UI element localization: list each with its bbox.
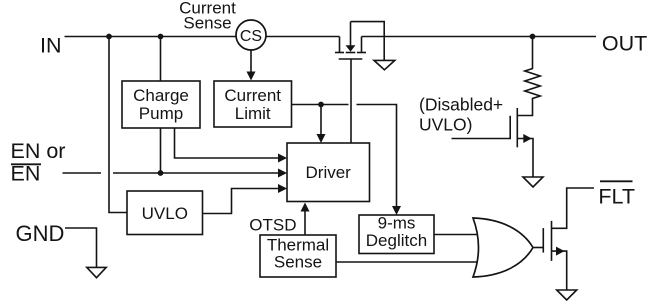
svg-text:(Disabled+: (Disabled+ [419, 94, 503, 114]
svg-text:Sense: Sense [183, 14, 231, 33]
block Charge Pump [122, 81, 200, 128]
wire Thermal Sense to Driver [304, 211, 306, 235]
wire IN rail [65, 36, 340, 38]
wire CS to Current Limit arrow [250, 50, 252, 72]
svg-text:UVLO): UVLO) [419, 115, 472, 135]
block 9-ms Deglitch [359, 215, 434, 254]
block UVLO [127, 191, 203, 235]
node OUT-resistor branch [530, 34, 536, 40]
svg-text:Current: Current [224, 86, 281, 105]
ground at GND pin [87, 267, 106, 277]
ground at discharge FET [523, 177, 543, 187]
node EN-ChargePump [158, 170, 164, 176]
svg-text:OUT: OUT [602, 32, 647, 56]
ground at FLT FET [557, 290, 577, 300]
wire OUT rail [362, 36, 597, 38]
transistor Q2 discharge FET [452, 108, 534, 177]
svg-text:9-ms: 9-ms [378, 214, 416, 233]
gate OR [473, 218, 533, 277]
svg-text:Sense: Sense [274, 253, 322, 272]
wire gate of Q1 to Driver [350, 59, 352, 143]
svg-text:Pump: Pump [139, 104, 183, 123]
block Driver [287, 143, 370, 202]
svg-text:UVLO: UVLO [142, 204, 188, 223]
wire Thermal Sense to OR gate [336, 261, 478, 263]
svg-text:CS: CS [240, 28, 262, 45]
wire IN to Charge Pump [160, 37, 162, 82]
svg-text:Limit: Limit [235, 104, 271, 123]
wire OR to Q3 gate [533, 247, 543, 249]
wire Deglitch to OR gate [434, 234, 478, 236]
block Thermal Sense [260, 235, 336, 277]
node IN-UVLO branch [106, 34, 112, 40]
wire Charge Pump to Driver [175, 128, 279, 158]
block Current Limit [214, 81, 292, 127]
resistor discharge [517, 37, 540, 116]
svg-text:OTSD: OTSD [249, 216, 296, 235]
current sense CS [236, 20, 266, 50]
svg-text:Driver: Driver [306, 163, 352, 182]
wire UVLO to Driver [203, 189, 279, 214]
node IN-ChargePump branch [158, 34, 164, 40]
ground at power FET body [374, 60, 395, 69]
svg-text:FLT: FLT [598, 185, 635, 209]
svg-text:GND: GND [16, 221, 65, 246]
transistor Q1 power FET [335, 22, 384, 61]
wire Charge Pump to EN node [160, 128, 162, 173]
svg-text:Deglitch: Deglitch [366, 231, 427, 250]
wire EN input [63, 172, 279, 174]
svg-text:Charge: Charge [133, 86, 189, 105]
svg-text:IN: IN [40, 34, 62, 58]
wire Current Limit output [292, 105, 397, 207]
transistor Q3 FLT FET [543, 188, 594, 290]
svg-text:EN or: EN or [11, 139, 66, 163]
node Current Limit branch [318, 102, 324, 108]
wire IN to UVLO [109, 37, 127, 213]
